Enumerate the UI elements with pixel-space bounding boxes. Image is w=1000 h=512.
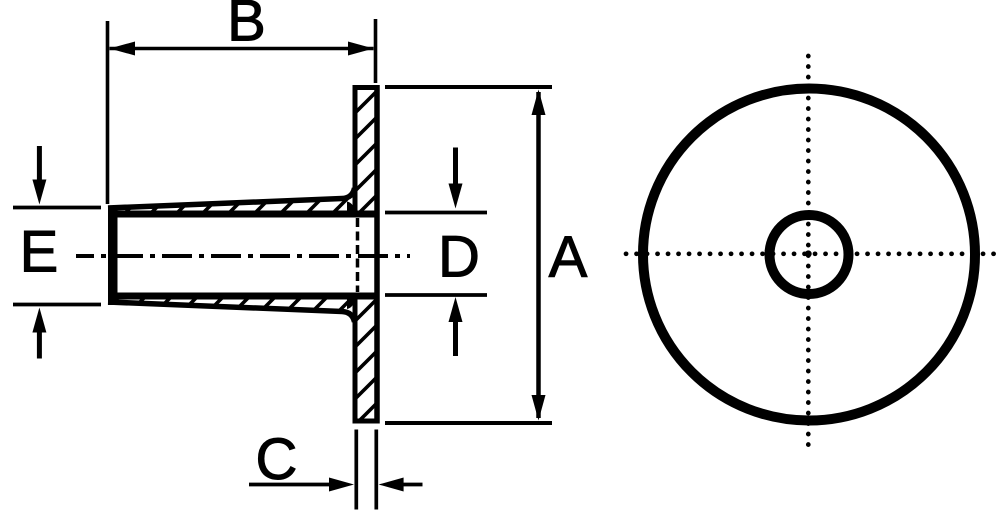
svg-text:D: D xyxy=(438,225,480,290)
svg-text:C: C xyxy=(256,427,298,492)
svg-text:E: E xyxy=(20,220,59,285)
svg-text:B: B xyxy=(227,0,266,54)
svg-text:A: A xyxy=(549,225,588,290)
